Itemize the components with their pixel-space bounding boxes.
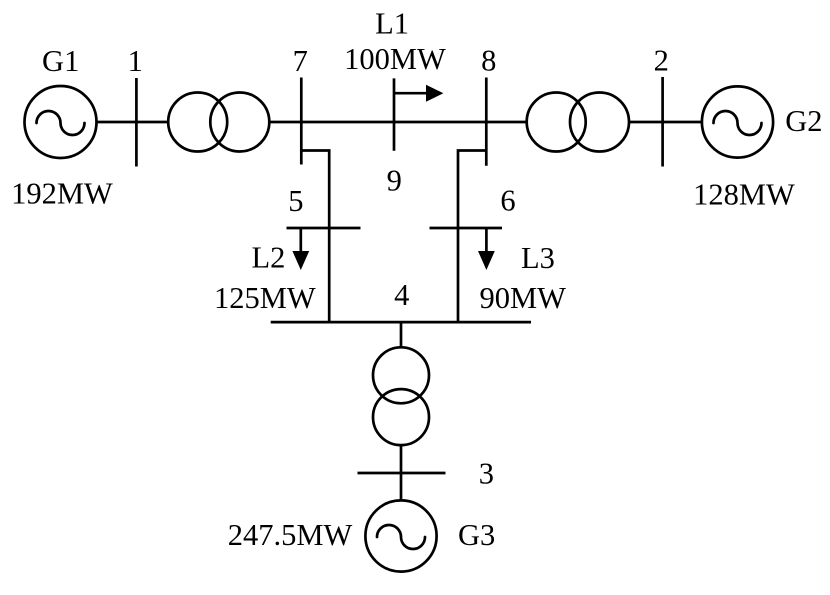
svg-text:L2: L2 — [251, 240, 285, 274]
wire bus7 to bus8 (line 9) — [270, 121, 527, 124]
power flow arrow L1 — [394, 92, 427, 95]
svg-text:192MW: 192MW — [11, 177, 113, 211]
svg-text:6: 6 — [500, 184, 515, 218]
arrowhead load L2 — [292, 251, 309, 270]
svg-text:1: 1 — [128, 44, 143, 78]
svg-text:100MW: 100MW — [344, 42, 446, 76]
wire bus4 to transformer T3 — [400, 322, 403, 347]
load L2 stem — [299, 228, 302, 252]
bus 7 — [300, 78, 303, 165]
arrowhead L1 — [426, 85, 443, 102]
generator G2 — [702, 86, 773, 157]
load L3 stem — [485, 228, 488, 252]
bus 6 — [430, 227, 503, 230]
node 9 tick — [393, 78, 396, 150]
svg-text:G2: G2 — [785, 104, 822, 138]
wire bus8 down to bus4 — [458, 151, 486, 323]
bus 1 — [135, 78, 138, 167]
svg-text:G3: G3 — [458, 518, 495, 552]
bus 4 — [271, 321, 531, 324]
svg-text:3: 3 — [479, 456, 494, 490]
wire G1 to transformer T1 — [97, 121, 169, 124]
wire transformer T2 to G2 — [629, 121, 702, 124]
bus 2 — [661, 77, 664, 167]
transformer T2 — [527, 93, 586, 152]
svg-text:90MW: 90MW — [479, 281, 566, 315]
transformer T1 — [168, 93, 227, 152]
svg-text:125MW: 125MW — [214, 281, 316, 315]
svg-text:2: 2 — [654, 44, 669, 78]
bus 5 — [287, 227, 361, 230]
svg-text:G1: G1 — [42, 44, 79, 78]
transformer T3 — [373, 347, 429, 403]
arrowhead load L3 — [478, 251, 495, 270]
svg-text:L3: L3 — [521, 241, 555, 275]
svg-text:L1: L1 — [375, 6, 409, 40]
svg-text:128MW: 128MW — [693, 177, 795, 211]
svg-text:4: 4 — [394, 278, 409, 312]
wire T3 to G3 — [400, 445, 403, 500]
svg-text:7: 7 — [293, 44, 308, 78]
svg-text:9: 9 — [387, 163, 402, 197]
generator G3 — [365, 500, 436, 571]
wire bus7 down to bus4 — [301, 151, 329, 323]
svg-text:247.5MW: 247.5MW — [228, 518, 353, 552]
bus 3 — [358, 472, 446, 475]
svg-text:8: 8 — [481, 44, 496, 78]
bus 8 — [485, 78, 488, 166]
generator G1 — [25, 86, 97, 158]
svg-text:5: 5 — [288, 184, 303, 218]
